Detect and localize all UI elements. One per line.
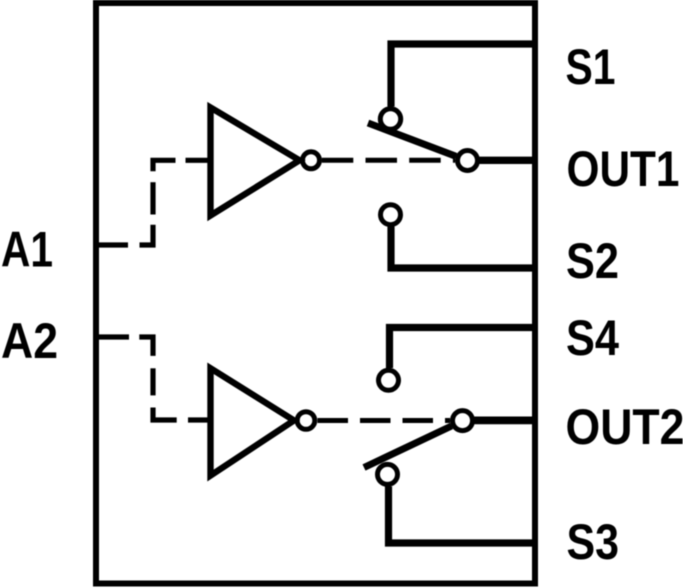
wire U2 output dashed to switch pole xyxy=(318,418,451,423)
wire A1 dashed corner lower xyxy=(140,225,154,245)
pole OUT2 circle xyxy=(453,411,473,431)
wire A2 dashed corner upper xyxy=(139,337,153,356)
pin A2 stub xyxy=(96,334,129,339)
wire A2 dashed vertical xyxy=(150,368,155,395)
pole OUT1 circle xyxy=(458,151,478,171)
contact S4 circle xyxy=(379,370,399,390)
contact S1 circle xyxy=(380,109,400,129)
buffer U2 triangle xyxy=(211,368,295,475)
wire U1 output dashed to switch pole xyxy=(322,158,455,163)
switch blade SW1 xyxy=(368,123,456,156)
contact S2 circle xyxy=(381,205,401,225)
wire A2 dash into buffer U2 xyxy=(188,417,208,422)
buffer U2 output bubble xyxy=(297,412,315,430)
wire S4 net xyxy=(390,328,536,369)
contact S3 circle xyxy=(378,464,398,484)
switch blade SW2 xyxy=(364,426,452,468)
wire OUT1 xyxy=(480,157,536,164)
wire A1 dash into buffer U1 xyxy=(186,158,209,163)
svg-text:S2: S2 xyxy=(566,233,619,289)
wire S2 net xyxy=(391,227,535,269)
svg-text:S1: S1 xyxy=(566,39,616,95)
wire S1 net xyxy=(391,44,535,107)
svg-text:A1: A1 xyxy=(1,222,53,278)
svg-text:A2: A2 xyxy=(1,313,58,369)
svg-text:OUT1: OUT1 xyxy=(567,141,680,197)
svg-text:OUT2: OUT2 xyxy=(566,399,683,455)
wire OUT2 xyxy=(475,416,536,424)
wire S3 net xyxy=(389,487,536,544)
svg-text:S4: S4 xyxy=(566,310,619,366)
buffer U1 triangle xyxy=(211,108,300,216)
svg-text:S3: S3 xyxy=(567,514,620,570)
IC boundary box xyxy=(96,3,535,584)
wire A1 dashed corner upper xyxy=(153,160,176,171)
wire A1 dashed vertical xyxy=(150,182,155,214)
wire A2 dashed corner lower xyxy=(153,408,177,421)
buffer U1 output bubble xyxy=(303,152,320,169)
pin A1 stub xyxy=(96,242,128,247)
